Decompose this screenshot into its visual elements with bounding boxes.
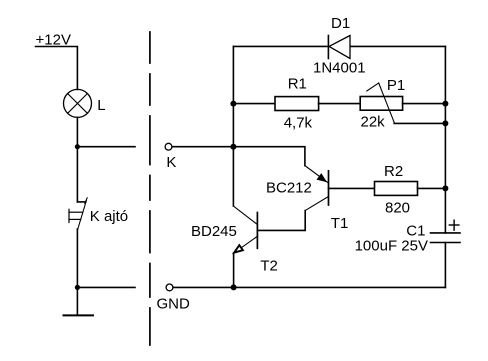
- svg-text:R1: R1: [288, 75, 307, 92]
- svg-text:K: K: [166, 154, 176, 171]
- svg-text:P1: P1: [387, 77, 405, 94]
- svg-text:+12V: +12V: [36, 31, 71, 48]
- svg-text:T2: T2: [260, 258, 278, 275]
- svg-text:R2: R2: [384, 163, 403, 180]
- svg-text:GND: GND: [157, 295, 191, 312]
- svg-text:BC212: BC212: [266, 180, 312, 197]
- svg-text:BD245: BD245: [191, 223, 237, 240]
- svg-text:4,7k: 4,7k: [284, 114, 313, 131]
- svg-text:D1: D1: [331, 15, 350, 32]
- svg-text:L: L: [97, 97, 105, 114]
- svg-text:820: 820: [385, 199, 410, 216]
- svg-text:K ajtó: K ajtó: [90, 208, 128, 225]
- svg-text:22k: 22k: [361, 114, 386, 131]
- svg-text:T1: T1: [331, 215, 349, 232]
- svg-text:1N4001: 1N4001: [313, 60, 366, 77]
- svg-text:100uF 25V: 100uF 25V: [355, 237, 428, 254]
